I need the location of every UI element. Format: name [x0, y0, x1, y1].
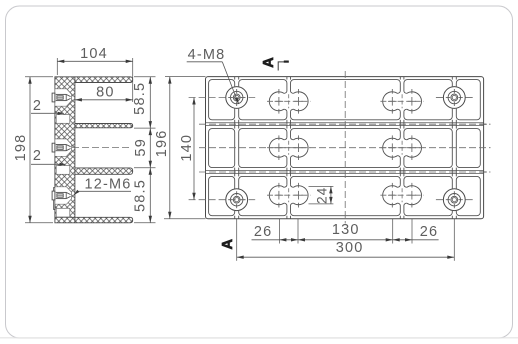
svg-text:2: 2	[33, 148, 42, 164]
svg-text:198: 198	[13, 134, 29, 162]
svg-text:58.5: 58.5	[132, 82, 148, 115]
svg-text:12-M6: 12-M6	[84, 177, 131, 193]
svg-text:26: 26	[420, 224, 439, 240]
svg-text:26: 26	[254, 224, 273, 240]
svg-text:80: 80	[96, 85, 115, 101]
svg-text:A: A	[261, 57, 277, 68]
svg-text:140: 140	[179, 134, 195, 162]
svg-text:2: 2	[33, 98, 42, 114]
svg-text:130: 130	[332, 222, 360, 238]
svg-text:104: 104	[80, 46, 108, 62]
svg-text:300: 300	[336, 240, 364, 256]
svg-text:196: 196	[154, 130, 170, 158]
svg-text:58.5: 58.5	[133, 179, 149, 212]
svg-text:59: 59	[133, 138, 149, 157]
svg-text:4-M8: 4-M8	[188, 47, 226, 63]
svg-text:24: 24	[315, 186, 330, 203]
svg-text:A: A	[220, 238, 236, 249]
